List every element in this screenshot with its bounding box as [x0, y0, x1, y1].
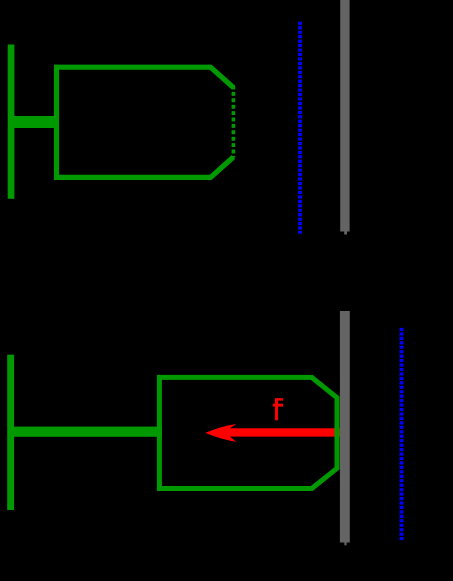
- plunger rod (bottom piston): [11, 427, 162, 437]
- reference dashed line (top, blue): [298, 22, 302, 234]
- wall segment (bottom, gray): [340, 311, 350, 543]
- wall tip (bottom, gray): [344, 543, 346, 546]
- piston body outline (top): [57, 67, 234, 177]
- piston face dotted edge (top): [232, 86, 236, 158]
- force label f : stem: [275, 398, 278, 420]
- force label f : top hook bar: [275, 398, 283, 400]
- plunger rod (top piston): [11, 116, 59, 128]
- reference dashed line (bottom, blue): [400, 328, 404, 541]
- force label f : crossbar: [273, 404, 283, 407]
- wall tip (top, gray): [344, 232, 347, 235]
- plunger handle bar (bottom piston): [7, 355, 14, 510]
- wall segment (top, gray): [340, 0, 349, 232]
- plunger handle bar (top piston): [8, 45, 15, 199]
- piston body outline (bottom): [159, 377, 337, 488]
- force arrow f (red): [205, 424, 340, 442]
